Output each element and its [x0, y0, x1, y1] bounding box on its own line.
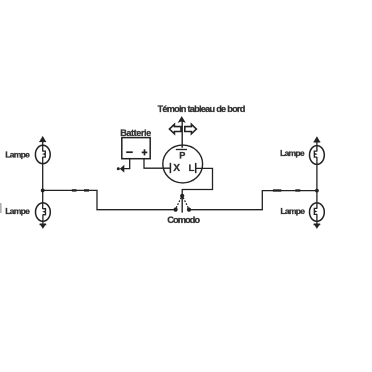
svg-text:Lampe: Lampe — [5, 206, 30, 216]
svg-text:Lampe: Lampe — [280, 206, 305, 216]
svg-text:Témoin tableau de bord: Témoin tableau de bord — [158, 104, 245, 114]
svg-text:Lampe: Lampe — [5, 149, 30, 159]
svg-text:Comodo: Comodo — [167, 214, 200, 225]
svg-text:P: P — [179, 150, 185, 160]
svg-text:L: L — [189, 163, 195, 174]
svg-text:Lampe: Lampe — [280, 148, 305, 158]
svg-text:Batterie: Batterie — [120, 128, 151, 138]
svg-text:X: X — [173, 163, 180, 174]
